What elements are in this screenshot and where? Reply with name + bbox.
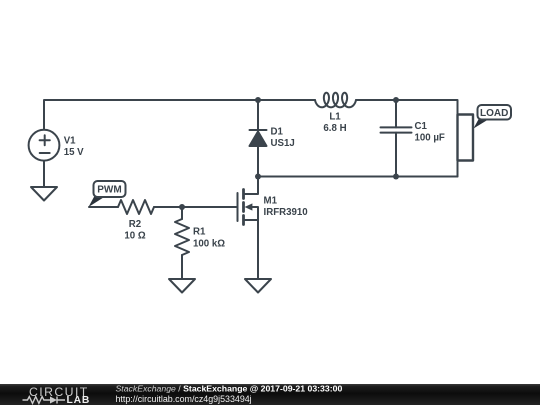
voltage source V1 circle [29, 130, 60, 161]
mosfet M1 gate bar [237, 193, 239, 221]
V1 minus sign [40, 152, 50, 154]
svg-text:US1J: US1J [271, 138, 295, 149]
ground under V1 [31, 187, 57, 201]
svg-text:http://circuitlab.com/cz4g9j53: http://circuitlab.com/cz4g9j533494j [116, 394, 252, 404]
flag LOAD [474, 105, 512, 129]
junction dots [179, 97, 399, 210]
wire bottom rail [258, 176, 458, 178]
svg-text:StackExchange / StackExchange: StackExchange / StackExchange @ 2017-09-… [116, 384, 343, 394]
capacitor C1 plates [381, 127, 412, 132]
LOAD block rectangle [458, 115, 474, 161]
wire C1 bottom [395, 133, 397, 177]
svg-text:6.8 H: 6.8 H [323, 123, 346, 134]
node C1 bottom junction [393, 174, 399, 180]
wire M1 source down [257, 220, 259, 279]
svg-text:R2: R2 [129, 219, 141, 230]
node gate/R1 junction [179, 204, 185, 210]
svg-text:15 V: 15 V [64, 147, 84, 158]
ground under R1 [169, 279, 195, 293]
wire gate run [89, 206, 238, 208]
svg-text:L1: L1 [329, 112, 341, 123]
svg-text:IRFR3910: IRFR3910 [264, 207, 308, 218]
node D1/M1 junction [255, 174, 261, 180]
flag PWM [89, 181, 126, 207]
wire D1 branch [257, 100, 259, 177]
footer bar [0, 384, 540, 405]
mosfet M1 arrowhead [245, 203, 253, 210]
svg-text:C1: C1 [415, 121, 428, 132]
wire top rail right of L1 [356, 100, 458, 177]
svg-text:V1: V1 [64, 136, 76, 147]
svg-text:100 kΩ: 100 kΩ [193, 239, 225, 250]
footer logo doodle [23, 397, 66, 404]
diode D1 cathode bar [250, 129, 267, 131]
resistor R1 [175, 219, 189, 255]
wire C1 top [395, 100, 397, 127]
svg-text:PWM: PWM [97, 185, 121, 196]
svg-text:LAB: LAB [67, 395, 91, 405]
V1 plus sign [40, 135, 50, 145]
svg-text:D1: D1 [271, 127, 284, 138]
wire R1 leads [181, 207, 183, 279]
svg-text:100 µF: 100 µF [415, 133, 445, 144]
svg-text:M1: M1 [264, 196, 278, 207]
ground under M1 [245, 279, 271, 293]
mosfet M1 body arrow line [245, 207, 259, 220]
mosfet M1 drain lead [245, 177, 259, 195]
svg-text:10 Ω: 10 Ω [124, 231, 145, 242]
resistor R2 [118, 200, 154, 214]
wire top rail [44, 100, 315, 131]
wire V1 bottom lead [43, 161, 45, 188]
diode D1 triangle [250, 132, 267, 147]
svg-text:LOAD: LOAD [480, 108, 508, 119]
node D1 top junction [255, 97, 261, 103]
svg-text:R1: R1 [193, 227, 206, 238]
mosfet M1 channel segments [242, 190, 245, 225]
inductor L1 [315, 93, 356, 108]
labels [64, 112, 445, 250]
node C1 top junction [393, 97, 399, 103]
